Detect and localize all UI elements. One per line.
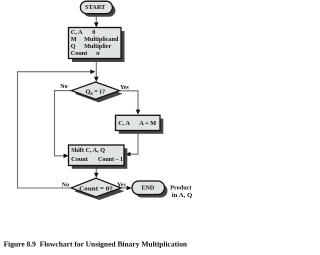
terminal END	[132, 181, 168, 198]
svg-text:Count – 1: Count – 1	[98, 156, 123, 163]
svg-text:M: M	[71, 36, 77, 43]
svg-text:A + M: A + M	[139, 120, 156, 127]
svg-text:Product: Product	[170, 184, 192, 191]
svg-text:Figure 8.9 Flowchart for Unsi: Figure 8.9 Flowchart for Unsigned Binary…	[4, 240, 188, 249]
svg-text:0: 0	[92, 29, 95, 36]
svg-text:Shift C, A, Q: Shift C, A, Q	[71, 147, 105, 154]
decision diamond: Q0 = 1?	[72, 82, 123, 102]
svg-text:Count = 0?: Count = 0?	[79, 186, 113, 193]
svg-text:C, A: C, A	[118, 120, 130, 127]
process box: C,A = A+M	[116, 115, 164, 134]
svg-text:END: END	[142, 184, 155, 191]
svg-text:C, A: C, A	[71, 29, 83, 36]
terminal START	[80, 1, 115, 17]
wire: init box to decision Q0=1	[94, 59, 99, 82]
wire: add box to shift box (down, left)	[125, 131, 138, 157]
process box: initialization (C,A=0; M=Multiplicand; Q=Multiplier; Count=n)	[69, 28, 125, 63]
decision diamond: Count = 0?	[71, 178, 124, 200]
wire: START to init box	[94, 14, 99, 28]
svg-text:No: No	[62, 182, 69, 188]
svg-text:Yes: Yes	[120, 85, 129, 91]
process box: Shift C,A,Q / Count = Count-1	[69, 145, 128, 169]
wire: feedback loop left (Count!=0 No path: bottom horizontal, left vertical, top horizontal)	[18, 69, 96, 188]
svg-text:in A, Q: in A, Q	[172, 192, 192, 199]
wire: No branch of Q0=1 (left, down, into shift box)	[55, 91, 72, 159]
svg-text:Count: Count	[71, 50, 88, 57]
svg-text:START: START	[85, 4, 106, 11]
svg-text:Q0 = 1?: Q0 = 1?	[86, 89, 106, 97]
svg-text:Count: Count	[71, 156, 89, 163]
wire: Yes branch of Count=0 to END	[121, 186, 132, 191]
svg-text:Yes: Yes	[117, 182, 126, 188]
wire: Yes branch of Q0=1 (right, down into add box)	[120, 91, 141, 115]
svg-text:No: No	[60, 84, 67, 90]
svg-text:Multiplicand: Multiplicand	[84, 36, 119, 43]
svg-text:n: n	[96, 50, 100, 57]
wire: shift box to decision Count=0	[94, 166, 99, 178]
label: Product in A, Q	[170, 184, 192, 199]
